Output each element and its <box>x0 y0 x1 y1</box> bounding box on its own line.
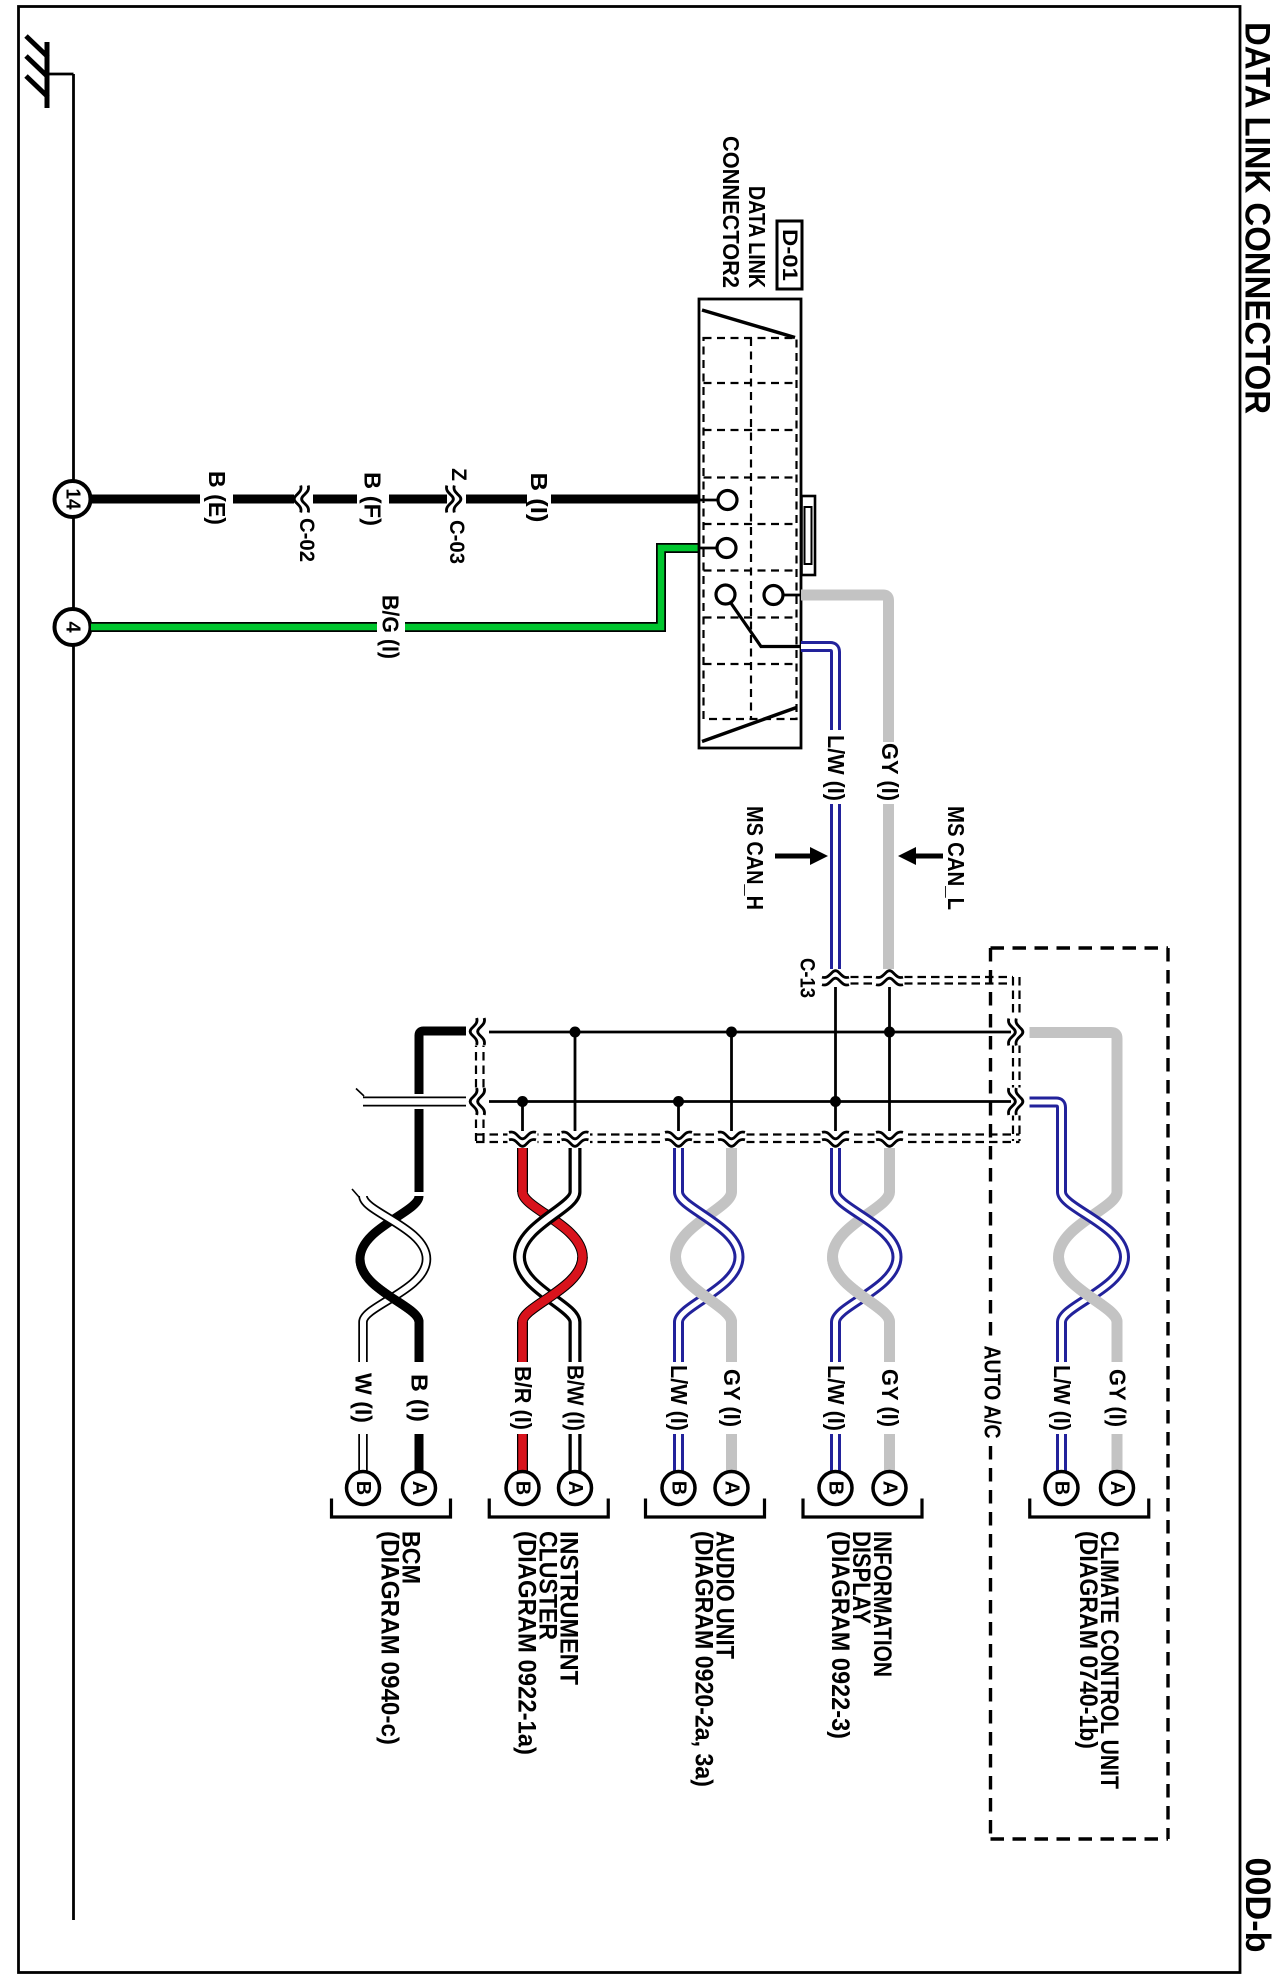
wire GY twist (info) <box>884 1148 895 1192</box>
svg-text:B/G (I): B/G (I) <box>378 595 404 659</box>
svg-text:W (I): W (I) <box>351 1373 377 1423</box>
label component CLIMATE CONTROL UNIT <box>1074 1531 1123 1789</box>
svg-text:C-13: C-13 <box>796 958 819 998</box>
junction CAN_L / B/W <box>570 1027 581 1038</box>
wire B ground wire horizontal <box>90 495 699 504</box>
pin circle 3 <box>716 585 735 604</box>
svg-text:L/W (I): L/W (I) <box>823 735 849 801</box>
arrow MS CAN_H <box>775 854 812 859</box>
wire L/W to climate <box>1030 1102 1062 1192</box>
wire B (I) drop upper (BCM) <box>415 1322 424 1362</box>
pin A (audio) <box>715 1472 748 1505</box>
pin circle 1 <box>718 491 737 510</box>
wire L/W (I) drop upper (climate) <box>1056 1322 1067 1362</box>
wire GY twist (climate) <box>1059 1192 1118 1322</box>
wire pin stub B <box>699 499 719 502</box>
wire CAN_H bus (lower) <box>489 1100 1011 1103</box>
svg-text:GY (I): GY (I) <box>1105 1369 1131 1427</box>
wire GY twist over (audio) <box>676 1257 732 1322</box>
svg-text:GY (I): GY (I) <box>877 743 903 801</box>
pin A (cluster) <box>559 1472 592 1505</box>
wire B/G green wire <box>91 548 699 627</box>
bracket (audio) <box>646 1499 765 1518</box>
svg-text:D-01: D-01 <box>778 229 801 281</box>
crossing bus exit at x=678.5 <box>665 1132 692 1146</box>
svg-text:(DIAGRAM 0922-1a): (DIAGRAM 0922-1a) <box>512 1531 540 1755</box>
svg-text:L/W (I): L/W (I) <box>1049 1365 1075 1431</box>
label L/W (I) upper <box>828 730 844 804</box>
wire B/R twist (cluster) <box>517 1148 528 1192</box>
wire W twist (BCM) <box>363 1196 427 1322</box>
crossing bus left W <box>470 1088 484 1115</box>
node 14 ground pin <box>55 481 91 517</box>
crossing bus right GY <box>1008 1019 1022 1046</box>
svg-text:C-02: C-02 <box>295 518 318 562</box>
wire W (I) drop lower (BCM) <box>358 1434 368 1471</box>
svg-text:DATA LINK CONNECTOR: DATA LINK CONNECTOR <box>1238 22 1278 414</box>
wire GY from DLC2 <box>801 595 889 969</box>
svg-text:B (E): B (E) <box>204 471 230 525</box>
svg-text:A: A <box>879 1481 901 1495</box>
label B/G (I) <box>377 620 405 634</box>
wire pin stub GY <box>782 594 801 597</box>
crossing bus right L/W <box>1008 1088 1022 1115</box>
bus boundary mark gaps <box>467 969 1031 1149</box>
pin A (BCM) <box>403 1472 436 1505</box>
label component INFORMATION <box>826 1531 896 1739</box>
svg-text:B/R (I): B/R (I) <box>510 1366 536 1430</box>
crossing bus left B <box>470 1018 484 1045</box>
wire W to BCM horizontal <box>363 1097 466 1107</box>
svg-text:B (F): B (F) <box>360 472 386 526</box>
wire GY (I) drop lower (info) <box>884 1434 895 1471</box>
wire GY twist over (climate) <box>1059 1257 1118 1322</box>
svg-text:B: B <box>825 1481 847 1495</box>
crossing C-13 on L/W <box>822 971 849 985</box>
svg-text:L/W (I): L/W (I) <box>823 1365 849 1431</box>
wire feeder L/W info <box>834 987 837 1131</box>
crossing C-13 on GY <box>876 971 903 985</box>
wire L/W twist (climate) <box>1062 1192 1125 1322</box>
wire B/W (I) drop upper (cluster) <box>569 1322 582 1362</box>
label component INSTRUMENT <box>512 1531 582 1755</box>
wire B/R twist over (cluster) <box>523 1257 583 1322</box>
svg-text:(DIAGRAM 0920-2a, 3a): (DIAGRAM 0920-2a, 3a) <box>690 1531 718 1787</box>
svg-text:Z: Z <box>447 468 470 481</box>
wire feeder GY audio <box>730 1032 733 1131</box>
wire feeder B/W <box>574 1032 577 1131</box>
label component BCM <box>376 1531 425 1745</box>
pin A (climate) <box>1101 1472 1134 1505</box>
connector D-01 bottom key diagonal <box>702 708 797 742</box>
crossing bus exit at x=575 <box>562 1132 589 1146</box>
wire GY (I) drop upper (info) <box>884 1322 895 1362</box>
svg-text:B (I): B (I) <box>526 473 552 523</box>
wire B twist over (BCM) <box>360 1259 419 1322</box>
svg-text:GY (I): GY (I) <box>877 1369 903 1427</box>
arrow MS CAN_L <box>914 854 943 859</box>
svg-text:L/W (I): L/W (I) <box>666 1365 692 1431</box>
wire B/R (I) drop lower (cluster) <box>517 1434 528 1471</box>
junction CAN_L / GY dlc <box>884 1027 895 1038</box>
svg-text:(DIAGRAM 0740-1b): (DIAGRAM 0740-1b) <box>1074 1531 1102 1749</box>
ground (chassis) symbol <box>26 36 48 108</box>
svg-text:00D-b: 00D-b <box>1238 1858 1277 1953</box>
svg-text:C-03: C-03 <box>445 520 468 564</box>
wire GY to climate <box>1030 1033 1118 1193</box>
bracket (cluster) <box>489 1499 608 1518</box>
wire GY (I) drop upper (climate) <box>1112 1322 1123 1362</box>
crossing bus exit at x=889.5 <box>876 1132 903 1146</box>
wire L/W from DLC2 <box>801 647 836 970</box>
wire pin stub B/G <box>699 547 718 550</box>
junction CAN_H / B/R <box>517 1096 528 1107</box>
svg-text:MS CAN_H: MS CAN_H <box>742 806 768 910</box>
svg-text:14: 14 <box>62 489 84 511</box>
wire B thick to BCM <box>419 1031 466 1094</box>
connector D-01 DATALINK CONNECTOR2 outline <box>699 299 801 748</box>
svg-text:4: 4 <box>62 621 84 633</box>
svg-text:AUTO A/C: AUTO A/C <box>980 1346 1006 1439</box>
connector D-01 cell grid (dashed) <box>704 338 797 719</box>
AUTO A/C dashed box <box>989 948 992 1340</box>
wire B (I) drop lower (BCM) <box>415 1434 424 1471</box>
wire GY twist (audio) <box>726 1148 737 1192</box>
svg-text:(DIAGRAM 0922-3): (DIAGRAM 0922-3) <box>826 1531 854 1739</box>
wire B twist (BCM) <box>360 1196 419 1322</box>
wire GY (I) drop lower (audio) <box>726 1434 737 1471</box>
wire CAN_L bus (upper) <box>489 1031 1011 1034</box>
pin B (audio) <box>662 1472 695 1505</box>
wire pin link L/W diagonal <box>731 603 802 647</box>
connector D-01 side tab <box>802 496 816 575</box>
bracket (info) <box>803 1499 922 1518</box>
bracket (climate) <box>1030 1499 1149 1518</box>
junction CAN_H / L/W dlc <box>830 1096 841 1107</box>
junction CAN_H / L/W audio <box>673 1096 684 1107</box>
wire ground rail <box>72 74 75 1920</box>
svg-text:B: B <box>512 1481 534 1495</box>
bracket (BCM) <box>332 1499 451 1518</box>
pin circle 2 <box>717 539 736 558</box>
svg-text:B (I): B (I) <box>407 1374 433 1422</box>
svg-text:B: B <box>352 1481 374 1495</box>
svg-text:GY (I): GY (I) <box>719 1369 745 1427</box>
connector C-13 bus boundary (dashed) <box>476 977 1020 1142</box>
svg-text:(DIAGRAM 0940-c): (DIAGRAM 0940-c) <box>376 1531 404 1745</box>
label D-01 box <box>777 221 802 289</box>
label GY (I) upper <box>882 742 896 804</box>
wire B/W (I) drop lower (cluster) <box>569 1434 582 1471</box>
crossing bus exit at x=522.5 <box>509 1132 536 1146</box>
wire L/W (I) drop upper (audio) <box>673 1322 684 1362</box>
wire feeder GY info <box>888 987 891 1131</box>
wire feeder B/R <box>521 1102 524 1132</box>
connector C-03 crossing <box>446 486 460 513</box>
pin B (cluster) <box>506 1472 539 1505</box>
connector D-01 top key diagonal <box>702 310 795 338</box>
wire L/W twist (info) <box>830 1148 841 1192</box>
svg-text:CONNECTOR2: CONNECTOR2 <box>718 136 744 288</box>
svg-text:A: A <box>408 1481 430 1495</box>
svg-text:A: A <box>721 1481 743 1495</box>
wire L/W (I) drop lower (climate) <box>1056 1434 1067 1471</box>
wire W (I) drop upper (BCM) <box>358 1322 368 1362</box>
connector C-02 crossing <box>294 486 308 513</box>
wire GY twist over (info) <box>833 1257 890 1322</box>
wire feeder L/W audio <box>677 1102 680 1132</box>
svg-text:B: B <box>1051 1481 1073 1495</box>
wire B/R (I) drop upper (cluster) <box>517 1322 528 1362</box>
svg-text:B/W (I): B/W (I) <box>563 1365 589 1431</box>
pin B (BCM) <box>347 1472 380 1505</box>
wire ground stub <box>47 73 74 76</box>
svg-text:A: A <box>564 1481 586 1495</box>
pin circle 4 <box>764 586 783 605</box>
svg-text:A: A <box>1106 1481 1128 1495</box>
svg-text:B: B <box>668 1481 690 1495</box>
pin B (climate) <box>1045 1472 1078 1505</box>
wire GY (I) drop upper (audio) <box>726 1322 737 1362</box>
wire L/W twist (audio) <box>673 1148 684 1192</box>
svg-text:MS CAN_L: MS CAN_L <box>943 806 969 910</box>
pin B (info) <box>819 1472 852 1505</box>
pin A (info) <box>873 1472 906 1505</box>
wire L/W (I) drop lower (audio) <box>673 1434 684 1471</box>
label component AUDIO UNIT <box>690 1531 739 1787</box>
node 4 ground pin <box>55 609 91 645</box>
svg-text:DATA LINK: DATA LINK <box>744 186 770 288</box>
wire L/W (I) drop lower (info) <box>830 1434 841 1471</box>
junction CAN_L / GY audio <box>726 1027 737 1038</box>
wire GY (I) drop lower (climate) <box>1112 1434 1123 1471</box>
crossing bus exit at x=731.5 <box>718 1132 745 1146</box>
wire L/W (I) drop upper (info) <box>830 1322 841 1362</box>
wire B/W twist (cluster) <box>569 1148 582 1192</box>
crossing bus exit at x=835.5 <box>822 1132 849 1146</box>
